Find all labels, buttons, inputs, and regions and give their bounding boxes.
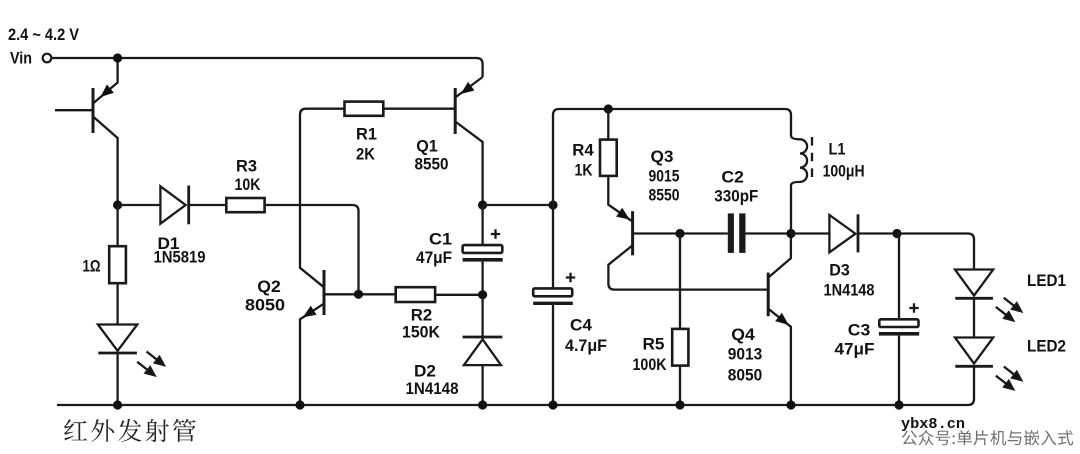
- junction dot bottom rail x=117.6: [113, 400, 122, 409]
- svg-text:C3: C3: [848, 321, 871, 340]
- capacitor C3 47uF electrolytic: [897, 234, 899, 320]
- IR emitter LED: [98, 325, 137, 406]
- LED1 radiation arrows: [996, 298, 1021, 321]
- junction dot bottom rail x=899: [894, 400, 903, 409]
- transistor Q1 8550: [383, 77, 482, 205]
- svg-text:Q1: Q1: [416, 137, 438, 156]
- svg-text:R3: R3: [236, 157, 257, 176]
- resistor 1 ohm: [116, 205, 118, 246]
- svg-text:100K: 100K: [633, 355, 668, 374]
- junction dot top rail / T1 emitter: [113, 53, 122, 62]
- svg-text:2.4 ~ 4.2 V: 2.4 ~ 4.2 V: [8, 25, 80, 44]
- svg-text:D2: D2: [414, 362, 436, 381]
- plus sign C3: [909, 303, 918, 312]
- plus sign C4: [566, 273, 575, 282]
- svg-text:8050: 8050: [728, 366, 763, 385]
- svg-text:9015: 9015: [649, 167, 680, 186]
- svg-text:47μF: 47μF: [416, 248, 452, 267]
- junction dot D3 cathode / C3 / LED branch: [892, 229, 901, 238]
- capacitor C1 47uF electrolytic: [481, 205, 483, 245]
- svg-text:C4: C4: [570, 316, 593, 335]
- label 红外发射管: [64, 419, 196, 442]
- junction dot Q2 base / R3 / R2: [354, 290, 363, 299]
- inductor L1 100uH: [791, 136, 807, 234]
- capacitor C2 330pF: [728, 213, 734, 253]
- svg-text:Q3: Q3: [651, 147, 674, 166]
- svg-text:C2: C2: [721, 168, 744, 187]
- svg-text:R5: R5: [643, 335, 665, 354]
- junction dot bottom rail x=300: [295, 400, 304, 409]
- svg-text:Q4: Q4: [731, 325, 755, 344]
- plus sign C1: [491, 229, 500, 238]
- junction dot C2 / Q4 / L1 / D3 node: [786, 229, 795, 238]
- diode D3 1N4148: [829, 214, 897, 252]
- wire: node to D3 anode: [791, 232, 829, 234]
- svg-text:Vin: Vin: [10, 49, 32, 68]
- Vin input terminal: [43, 54, 52, 63]
- svg-text:100μH: 100μH: [823, 162, 865, 181]
- junction dot Q3 base / R5: [675, 229, 684, 238]
- wire: R1 left corner down to Q2 collector: [300, 109, 345, 288]
- junction dot C1 minus / R2: [481, 262, 483, 295]
- svg-text:C1: C1: [429, 230, 452, 249]
- wire: bottom ground rail: [57, 366, 974, 405]
- wire: Q1 collector node to C4 node: [483, 204, 553, 206]
- capacitor C4 4.7uF electrolytic: [552, 205, 554, 288]
- wire: C2 to Q4 collector node: [746, 232, 792, 234]
- junction dot rail2 / R4: [604, 104, 613, 113]
- watermark gongzhonghao: [902, 430, 1073, 445]
- wire: D1 cathode to R3: [189, 204, 227, 206]
- svg-text:1N4148: 1N4148: [406, 379, 459, 398]
- svg-text:1N5819: 1N5819: [154, 248, 206, 267]
- resistor R4 1K: [607, 109, 609, 140]
- svg-text:ybx8.cn: ybx8.cn: [901, 416, 965, 433]
- svg-text:R1: R1: [356, 125, 377, 144]
- wire: node to D1 anode: [118, 204, 161, 206]
- junction dot bottom rail x=553: [548, 400, 557, 409]
- wire: 1 ohm to IR LED: [116, 283, 118, 324]
- svg-text:150K: 150K: [402, 323, 441, 342]
- IR LED radiation arrows: [137, 352, 164, 376]
- svg-text:LED2: LED2: [1027, 337, 1066, 356]
- svg-text:R4: R4: [572, 141, 594, 160]
- junction dot T1 collector node: [113, 200, 122, 209]
- resistor R5 100K: [679, 234, 681, 329]
- svg-text:LED1: LED1: [1027, 271, 1066, 290]
- wire: Q3 base to C2: [633, 232, 728, 234]
- svg-text:4.7μF: 4.7μF: [565, 336, 607, 355]
- svg-text:330pF: 330pF: [714, 187, 758, 206]
- svg-text:8550: 8550: [649, 186, 680, 205]
- svg-text:8050: 8050: [245, 296, 285, 315]
- svg-text:1N4148: 1N4148: [824, 281, 875, 300]
- LED2: [955, 338, 993, 367]
- svg-text:Q2: Q2: [257, 277, 281, 296]
- resistor R3 10K: [226, 198, 264, 212]
- svg-text:1Ω: 1Ω: [83, 257, 101, 276]
- junction dot C4 top node: [548, 200, 557, 209]
- wire: LED branch from D3 node: [897, 234, 974, 270]
- diode D2 1N4148 pointing up: [463, 295, 503, 405]
- resistor R2 150K: [396, 287, 435, 302]
- svg-text:10K: 10K: [235, 175, 262, 194]
- svg-text:D3: D3: [829, 261, 850, 280]
- transistor Q2 8050: [300, 270, 396, 405]
- svg-text:8550: 8550: [415, 155, 449, 174]
- junction dot bottom rail x=791: [786, 400, 795, 409]
- wire: T1 emitter to top rail: [93, 58, 118, 104]
- svg-text:L1: L1: [829, 140, 846, 159]
- wire: R2 to C1 node: [435, 294, 483, 296]
- wire: top supply rail from Vin to Q1 emitter: [52, 58, 483, 77]
- transistor Q3 9015/8550: [608, 176, 768, 290]
- junction dot Q1 collector node: [478, 200, 487, 209]
- svg-text:9013: 9013: [728, 345, 763, 364]
- svg-text:47μF: 47μF: [835, 340, 875, 359]
- svg-text:1K: 1K: [575, 161, 594, 180]
- L1 core dashed line: [811, 137, 813, 180]
- svg-text:2K: 2K: [356, 145, 376, 164]
- LED2 radiation arrows: [996, 367, 1021, 390]
- wire: oscillator top rail: [553, 109, 791, 205]
- transistor T1 input PNP: [55, 88, 118, 205]
- diode D1 1N5819: [160, 186, 188, 225]
- junction dot bottom rail x=482.6: [478, 400, 487, 409]
- wire: R3 to Q2 base corner: [265, 205, 359, 294]
- transistor Q4 9013/8050: [768, 234, 791, 406]
- LED1: [955, 270, 993, 338]
- resistor R1 2K: [345, 102, 384, 116]
- junction dot bottom rail x=680: [675, 400, 684, 409]
